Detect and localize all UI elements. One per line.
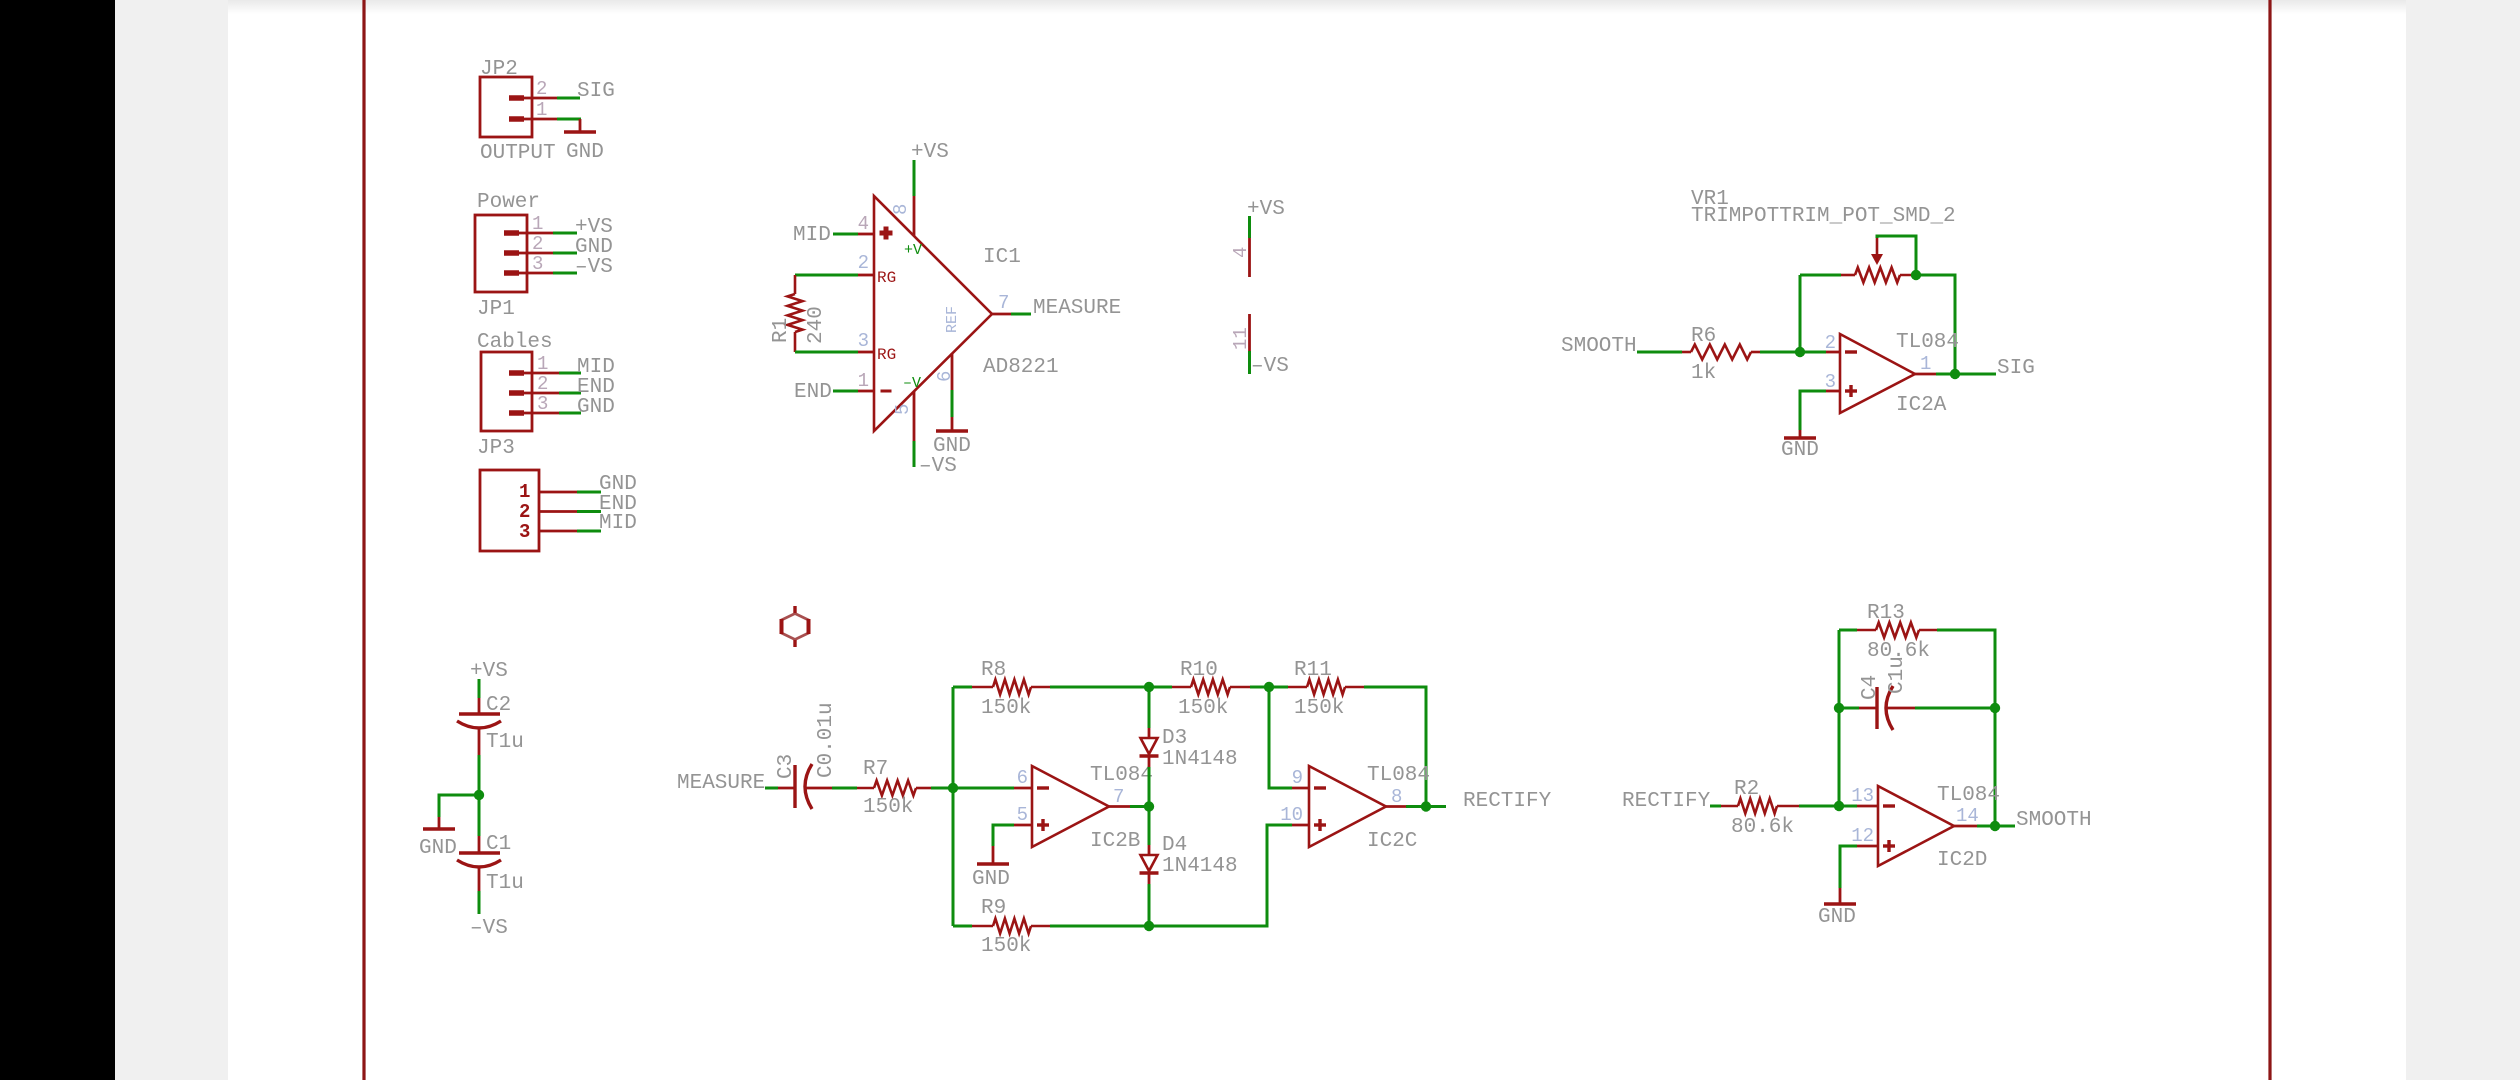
net label END at JP3	[577, 376, 615, 399]
wire R10R11 to IC2C pin9	[1269, 687, 1292, 788]
op-amp IC1 pin name REF	[944, 306, 961, 333]
svg-text:6: 6	[934, 371, 956, 382]
svg-text:13: 13	[1851, 785, 1874, 807]
svg-text:–VS: –VS	[1251, 355, 1289, 378]
op-amp supply pin 11 stub	[1248, 314, 1251, 351]
svg-text:RG: RG	[877, 269, 896, 287]
wire IC2B out	[1130, 805, 1149, 808]
capacitor C2 plates	[457, 714, 501, 728]
connector JP1 pin 3 number	[532, 253, 543, 275]
op-amp IC1 pin 2 number	[858, 252, 869, 274]
svg-text:C1u: C1u	[1886, 656, 1909, 694]
op-amp IC1 pin 1 stub	[858, 390, 874, 393]
svg-text:+VS: +VS	[1247, 198, 1285, 221]
net label -VS at C1	[470, 917, 508, 940]
wire C2 to junction	[478, 755, 481, 836]
svg-text:1: 1	[536, 99, 547, 121]
op-amp IC1 pin 3 stub	[858, 351, 874, 354]
capacitor C3 refdes	[775, 754, 798, 779]
op-amp IC2B pin 7 stub	[1109, 805, 1130, 808]
wire gnd to IC2A pin3	[1800, 391, 1826, 430]
wire SMOOTH to R6	[1637, 351, 1682, 354]
wire IC1 ref to gnd	[951, 390, 954, 417]
svg-text:Cables: Cables	[477, 331, 553, 354]
svg-text:R7: R7	[863, 758, 888, 781]
label GND at IC2D	[1818, 906, 1856, 929]
svg-text:1: 1	[532, 213, 543, 235]
connector JP1 pin 2 stub	[504, 250, 553, 256]
op-amp supply pin 4 number	[1230, 247, 1252, 258]
op-amp IC1 pin 8 number	[890, 204, 912, 215]
ground symbol at C1C2	[423, 817, 455, 829]
svg-text:C2: C2	[486, 694, 511, 717]
wire junction to gnd	[439, 795, 479, 817]
svg-text:IC2D: IC2D	[1937, 849, 1987, 872]
wire RG bottom	[795, 351, 858, 354]
junction IC2A out	[1950, 369, 1960, 379]
svg-text:R13: R13	[1867, 602, 1905, 625]
resistor R1 value 240	[805, 306, 828, 344]
svg-text:150k: 150k	[981, 935, 1031, 958]
wire net GND to SV1	[577, 491, 601, 494]
junction C4 left	[1834, 703, 1844, 713]
connector SV1 pin 3 stub	[539, 530, 577, 533]
connector SV1 pin 1 stub	[539, 491, 577, 494]
trimpot VR1 wiper arrow	[1871, 238, 1883, 265]
wire net END to SV1	[577, 510, 601, 513]
svg-text:3: 3	[858, 330, 869, 352]
svg-text:10: 10	[1280, 804, 1303, 826]
svg-text:JP3: JP3	[477, 437, 515, 460]
op-amp IC2C minus mark	[1314, 786, 1326, 789]
svg-text:TL084: TL084	[1937, 784, 2000, 807]
svg-text:80.6k: 80.6k	[1731, 816, 1794, 839]
svg-text:REF: REF	[944, 306, 961, 333]
resistor R11	[1288, 680, 1364, 695]
wire D3 link	[1148, 687, 1151, 807]
wire IC2A out	[1936, 373, 1996, 376]
capacitor C1 value	[486, 872, 524, 895]
capacitor C1 plates	[457, 853, 501, 867]
svg-text:2: 2	[532, 233, 543, 255]
connector JP1 pin 1 stub	[504, 230, 553, 236]
capacitor C3 left stub	[778, 787, 795, 790]
trimpot VR1 value label	[1691, 205, 1956, 228]
svg-text:TL084: TL084	[1090, 764, 1153, 787]
wire D4 link	[1148, 807, 1151, 927]
resistor R7	[857, 781, 931, 796]
op-amp IC2A pin 1 number	[1920, 353, 1931, 375]
svg-text:GND: GND	[577, 396, 615, 419]
wire net END to IC1 pin1	[833, 390, 858, 393]
resistor R13 value	[1867, 640, 1930, 663]
junction R10 R11	[1264, 682, 1274, 692]
diode D3 top stub	[1148, 728, 1151, 738]
net label MID at IC1	[793, 224, 831, 247]
svg-text:R9: R9	[981, 897, 1006, 920]
svg-text:3: 3	[537, 393, 548, 415]
capacitor C2 top stub	[478, 698, 481, 714]
wire RG top	[795, 274, 858, 277]
svg-text:7: 7	[1113, 786, 1124, 808]
trimpot VR1 refdes label	[1691, 188, 1729, 211]
svg-text:2: 2	[537, 373, 548, 395]
svg-text:IC1: IC1	[983, 246, 1021, 269]
junction IC2D input	[1834, 801, 1844, 811]
op-amp IC1 pin 1 number	[858, 370, 869, 392]
net label MID at JP3	[577, 356, 615, 379]
net label SMOOTH at IC2D	[2016, 809, 2092, 832]
resistor R8	[972, 680, 1050, 695]
wire MEASURE to C3	[765, 787, 778, 790]
connector SV1 pin 2 stub	[539, 510, 577, 513]
wire net -VS to JP1	[553, 272, 577, 275]
op-amp IC1 pin name -V	[903, 375, 921, 392]
svg-text:–VS: –VS	[919, 455, 957, 478]
capacitor C4 refdes	[1859, 675, 1882, 700]
wire net -VS to IC2 pin11	[1248, 351, 1251, 374]
op-amp IC1 pin label RG bottom	[877, 346, 896, 364]
op-amp IC2D body	[1878, 786, 1954, 866]
resistor R9 value	[981, 935, 1031, 958]
net label SIG at IC2A	[1997, 357, 2035, 380]
svg-text:1k: 1k	[1691, 362, 1716, 385]
op-amp IC2D minus mark	[1883, 804, 1895, 807]
svg-text:1N4148: 1N4148	[1162, 855, 1238, 878]
op-amp IC2B refdes IC2B	[1090, 830, 1140, 853]
wire net GND to JP2	[557, 118, 581, 121]
svg-text:JP1: JP1	[477, 298, 515, 321]
connector JP3 pin 2 number	[537, 373, 548, 395]
wire net GND to JP3	[559, 412, 581, 415]
connector JP3 body	[481, 352, 532, 431]
op-amp IC2B pin 6 number	[1017, 767, 1028, 789]
svg-text:150k: 150k	[981, 697, 1031, 720]
wire net +VS to IC2 pin4	[1248, 216, 1251, 238]
diode D4	[1140, 855, 1159, 873]
capacitor C1 bottom stub	[478, 868, 481, 891]
wire trimpot wiper loop	[1877, 236, 1916, 275]
capacitor C3 right stub	[805, 787, 832, 790]
connector SV1 pin 3 number	[519, 521, 530, 543]
capacitor C4 right stub	[1887, 707, 1915, 710]
svg-text:5: 5	[1017, 804, 1028, 826]
connector JP3 pin 3 stub	[509, 410, 559, 416]
svg-text:12: 12	[1851, 825, 1874, 847]
op-amp IC2A refdes IC2A	[1896, 394, 1947, 417]
op-amp IC1 pin 4 stub	[858, 233, 874, 236]
op-amp IC1 pin 2 stub	[858, 274, 874, 277]
svg-text:240: 240	[805, 306, 828, 344]
net label +VS at IC1	[911, 141, 949, 164]
net label GND at JP3	[577, 396, 615, 419]
svg-text:5: 5	[892, 404, 914, 415]
svg-text:SIG: SIG	[577, 80, 615, 103]
svg-text:END: END	[794, 381, 832, 404]
connector JP2 body	[480, 77, 532, 137]
junction IC2C out	[1421, 801, 1431, 811]
op-amp IC1 pin 7 number	[998, 292, 1009, 314]
op-amp IC2B pin 6 stub	[1014, 787, 1032, 790]
svg-text:2: 2	[858, 252, 869, 274]
label GND at JP2	[566, 141, 604, 164]
op-amp IC2D pin 12 number	[1851, 825, 1874, 847]
svg-text:R8: R8	[981, 659, 1006, 682]
op-amp IC1 pin 8 stub	[913, 196, 916, 236]
op-amp IC2B pin 7 number	[1113, 786, 1124, 808]
junction IC2D out	[1990, 821, 2000, 831]
net label +VS at JP1	[575, 216, 613, 239]
junction supply mid	[474, 790, 484, 800]
op-amp IC1 pin 5 number	[892, 404, 914, 415]
connector JP3 pin 2 stub	[509, 390, 559, 396]
net label MEASURE at IC1	[1033, 297, 1121, 320]
net label -VS at IC1	[919, 455, 957, 478]
resistor R6 refdes	[1691, 325, 1716, 348]
svg-text:150k: 150k	[863, 796, 913, 819]
net label SMOOTH at IC2A	[1561, 335, 1637, 358]
svg-text:+VS: +VS	[911, 141, 949, 164]
svg-text:R2: R2	[1734, 778, 1759, 801]
resistor R11 refdes	[1294, 659, 1332, 682]
svg-text:MID: MID	[793, 224, 831, 247]
net label RECTIFY at R2	[1622, 790, 1711, 813]
op-amp IC2C pin 10 number	[1280, 804, 1303, 826]
svg-text:TRIMPOTTRIM_POT_SMD_2: TRIMPOTTRIM_POT_SMD_2	[1691, 205, 1956, 228]
svg-text:OUTPUT: OUTPUT	[480, 142, 556, 165]
wire trimpot left leg	[1799, 275, 1802, 352]
op-amp IC1 pin 5 stub	[913, 391, 916, 441]
svg-text:4: 4	[858, 213, 869, 235]
svg-text:11: 11	[1230, 327, 1252, 350]
capacitor C4 value	[1886, 656, 1909, 694]
diode D4 bottom stub	[1148, 874, 1151, 884]
wire C4 left	[1839, 707, 1859, 710]
connector JP1 pin 3 stub	[504, 270, 553, 276]
ground symbol at IC2D	[1824, 888, 1856, 904]
net label +VS at C2	[470, 660, 508, 683]
wire trimpot right to SIG	[1916, 275, 1955, 374]
op-amp IC1 pin 3 number	[858, 330, 869, 352]
wire R8 left	[953, 686, 972, 689]
label GND at IC2B	[972, 868, 1010, 891]
svg-text:TL084: TL084	[1367, 764, 1430, 787]
net label RECTIFY at IC2C	[1463, 790, 1552, 813]
wire gnd to IC2B pin5	[993, 825, 1014, 846]
svg-text:2: 2	[519, 501, 530, 523]
op-amp IC2C body	[1309, 766, 1386, 847]
wire IC2C out	[1406, 805, 1446, 808]
svg-text:GND: GND	[972, 868, 1010, 891]
wire trimpot left	[1800, 274, 1841, 277]
svg-text:MID: MID	[599, 512, 637, 535]
op-amp supply pin 11 number	[1230, 327, 1252, 350]
connector JP3 pin 3 number	[537, 393, 548, 415]
net label -VS at JP1	[575, 256, 613, 279]
resistor R9	[972, 919, 1050, 934]
wire gnd to IC2D pin12	[1840, 846, 1857, 888]
op-amp IC2B minus mark	[1037, 786, 1049, 789]
capacitor C1 refdes	[486, 833, 511, 856]
svg-text:8: 8	[1391, 786, 1402, 808]
junction IC2B input	[948, 783, 958, 793]
op-amp IC2C name TL084	[1367, 764, 1430, 787]
connector JP3 refdes label	[477, 437, 515, 460]
op-amp IC1 value label	[983, 356, 1059, 379]
op-amp IC1 pin 6 number	[934, 371, 956, 382]
top page shading	[228, 0, 2406, 14]
wire bottom to IC2C pin10	[1149, 825, 1292, 926]
svg-text:C0.01u: C0.01u	[815, 702, 838, 778]
diode D4 value	[1162, 855, 1238, 878]
wire net -VS at IC1	[913, 441, 916, 467]
svg-text:T1u: T1u	[486, 731, 524, 754]
op-amp IC2D pin 12 stub	[1857, 845, 1878, 848]
connector SV1 pin 1 number	[519, 481, 530, 503]
wire net MEASURE at IC1	[1011, 313, 1031, 316]
resistor R9 refdes	[981, 897, 1006, 920]
op-amp IC2A pin 2 number	[1825, 332, 1836, 354]
op-amp IC1 name label	[983, 246, 1021, 269]
net label END at SV1	[599, 493, 637, 516]
connector JP1 pin 2 number	[532, 233, 543, 255]
svg-text:AD8221: AD8221	[983, 356, 1059, 379]
op-amp IC2D refdes IC2D	[1937, 849, 1987, 872]
op-amp IC2C refdes IC2C	[1367, 830, 1417, 853]
connector SV1 pin 2 number	[519, 501, 530, 523]
capacitor C3 plates	[795, 764, 812, 809]
op-amp IC1 pin name +V	[904, 242, 922, 259]
net label GND at JP1	[575, 236, 613, 259]
svg-text:C1: C1	[486, 833, 511, 856]
svg-text:IC2A: IC2A	[1896, 394, 1947, 417]
junction trimpot right	[1911, 270, 1921, 280]
diode D4 top stub	[1148, 845, 1151, 855]
resistor R13	[1857, 623, 1937, 638]
svg-text:8: 8	[890, 204, 912, 215]
svg-text:150k: 150k	[1178, 697, 1228, 720]
capacitor C1 top stub	[478, 836, 481, 853]
svg-text:7: 7	[998, 292, 1009, 314]
connector JP2 pin 1 number	[536, 99, 547, 121]
op-amp IC2B plus mark	[1037, 819, 1049, 831]
connector JP1 name label Power	[477, 191, 540, 214]
svg-text:RG: RG	[877, 346, 896, 364]
diode D3 refdes	[1162, 727, 1187, 750]
wire R2 to IC2D	[1799, 805, 1857, 808]
op-amp IC2A body	[1840, 334, 1915, 413]
crystal marker icon	[782, 606, 809, 647]
wire R6 to IC2A	[1760, 351, 1826, 354]
junction C4 right	[1990, 703, 2000, 713]
wire +VS to C2	[478, 679, 481, 698]
svg-text:C4: C4	[1859, 675, 1882, 700]
op-amp IC2C pin 9 stub	[1292, 787, 1309, 790]
connector JP2 pin 1 stub	[509, 116, 557, 122]
svg-text:R10: R10	[1180, 659, 1218, 682]
svg-text:GND: GND	[419, 837, 457, 860]
svg-text:TL084: TL084	[1896, 331, 1959, 354]
wire net END to JP3	[559, 392, 581, 395]
svg-text:9: 9	[1292, 767, 1303, 789]
diode D3 value	[1162, 748, 1238, 771]
svg-text:SMOOTH: SMOOTH	[2016, 809, 2092, 832]
svg-text:T1u: T1u	[486, 872, 524, 895]
connector SV1 body	[480, 470, 539, 551]
wire R9 left	[953, 925, 972, 928]
svg-text:MEASURE: MEASURE	[1033, 297, 1121, 320]
left gray gutter	[115, 0, 228, 1080]
op-amp IC1 pin label RG top	[877, 269, 896, 287]
ground symbol at IC2B	[977, 846, 1009, 864]
wire R10 left	[1149, 686, 1172, 689]
op-amp IC2D pin 14 number	[1956, 805, 1979, 827]
capacitor C2 value	[486, 731, 524, 754]
wire R10 right	[1250, 686, 1269, 689]
op-amp IC2D plus mark	[1883, 840, 1895, 852]
wire net +VS to IC1 pin8	[913, 160, 916, 196]
wire net MID to IC1 pin4	[833, 233, 858, 236]
svg-text:14: 14	[1956, 805, 1979, 827]
connector JP3 name label Cables	[477, 331, 553, 354]
wire net +VS to JP1	[553, 232, 577, 235]
op-amp IC2B pin 5 number	[1017, 804, 1028, 826]
op-amp IC2D pin 14 stub	[1954, 825, 1977, 828]
op-amp IC1 plus mark pin4	[880, 227, 893, 240]
left black sidebar	[0, 0, 115, 1080]
svg-text:150k: 150k	[1294, 697, 1344, 720]
op-amp IC2C pin 9 number	[1292, 767, 1303, 789]
connector JP3 pin 1 stub	[509, 370, 559, 376]
connector JP2 pin 2 stub	[509, 95, 557, 101]
resistor R10 value	[1178, 697, 1228, 720]
op-amp IC2A pin 1 stub	[1915, 373, 1936, 376]
capacitor C2 refdes	[486, 694, 511, 717]
svg-text:2: 2	[536, 78, 547, 100]
svg-text:–VS: –VS	[575, 256, 613, 279]
svg-text:SIG: SIG	[1997, 357, 2035, 380]
label GND at C1C2	[419, 837, 457, 860]
capacitor C3 value	[815, 702, 838, 778]
svg-text:R11: R11	[1294, 659, 1332, 682]
ground symbol at IC2A	[1784, 430, 1816, 438]
diode D3	[1140, 738, 1159, 756]
junction R9 D4	[1144, 921, 1154, 931]
frame border left	[362, 0, 365, 1080]
svg-text:–V: –V	[903, 375, 921, 392]
connector JP1 body	[475, 215, 527, 292]
junction R8 D3	[1144, 682, 1154, 692]
trimpot VR1 resistor	[1841, 268, 1917, 283]
svg-text:R6: R6	[1691, 325, 1716, 348]
resistor R10	[1172, 680, 1250, 695]
wire RECTIFY to R2	[1710, 805, 1721, 808]
wire R11 left	[1269, 686, 1288, 689]
wire R9 right	[1050, 925, 1149, 928]
op-amp IC2A name TL084	[1896, 331, 1959, 354]
svg-text:GND: GND	[933, 435, 971, 458]
svg-text:C3: C3	[775, 754, 798, 779]
resistor R1	[788, 275, 803, 352]
op-amp IC2C pin 8 stub	[1386, 805, 1406, 808]
svg-text:GND: GND	[566, 141, 604, 164]
svg-text:1: 1	[1920, 353, 1931, 375]
resistor R11 value	[1294, 697, 1344, 720]
svg-text:R1: R1	[770, 318, 793, 343]
junction IC2A input	[1795, 347, 1805, 357]
net label GND at SV1	[599, 473, 637, 496]
wire C3 to R7	[832, 787, 857, 790]
